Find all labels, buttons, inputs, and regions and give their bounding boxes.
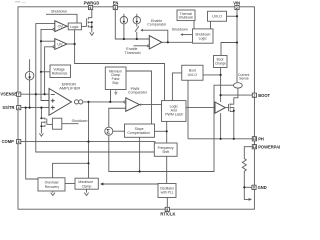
slope compensation box [125,124,155,137]
svg-text:PH: PH [258,136,264,141]
wire overload recovery to maximum clamp [65,183,75,185]
shutdown discharge driver box [52,118,87,129]
wire PH node to PH pin [188,138,252,140]
pin PH 10 [252,136,264,141]
PWM comparator output arrow [140,104,143,106]
pin EN 3 [113,0,119,10]
node PH line dots [220,138,235,140]
boot UVLO box [182,65,203,80]
svg-text:Threshold: Threshold [125,51,141,55]
wire sigma to slope compensation [113,130,125,132]
wire POWERPAD to resistor [244,147,252,157]
gate driver triangle [215,102,225,113]
wire slope compensation to latch vertical [155,130,167,132]
node UV output dot [74,43,76,45]
svg-text:Shutdown: Shutdown [51,10,67,14]
wire boot UVLO to boot rail [203,74,221,76]
wire slope compensation bottom to loop [139,137,141,171]
wire frequency shift to oscillator [166,156,168,183]
ground overload recovery [51,191,55,196]
svg-text:Comparator: Comparator [128,91,148,95]
svg-text:8: 8 [18,140,20,144]
UVLO box [208,11,227,21]
logic box (PWRGD) [68,23,81,30]
wire overload recovery top to COMP vertical [53,163,89,178]
minimum clamp pulse skip box [105,67,126,90]
wire oscillator arrow to maximum clamp [100,183,158,186]
enable comparator [147,19,167,49]
wire VSENSE up to OV comparator input [36,24,55,95]
wire Shutdown net into PWRGD logic [46,14,77,23]
node EN line dots [123,38,138,40]
svg-text:Shift: Shift [162,150,169,154]
svg-text:2: 2 [236,6,238,10]
svg-text:6: 6 [90,6,92,10]
wire UVLO to VIN rail [227,15,238,17]
node COMP line dots [87,141,89,165]
SS discharge MOSFET [40,117,52,128]
pin COMP 8 [2,139,21,144]
wire minimum clamp right to slope compensation top [126,71,152,124]
die boundary border [18,7,254,209]
wire shutdown net label arrow [180,33,192,36]
svg-text:EN: EN [113,0,119,5]
wire VIN to boot charge [221,43,237,56]
wire voltage reference to reference vertical [41,71,50,73]
svg-text:Σ: Σ [106,129,110,135]
current source EN pullup Ip [120,17,127,24]
svg-text:7: 7 [18,93,20,97]
wire high side FET drain to current sense [230,89,238,105]
wire boot UVLO down to PH node [187,80,189,139]
node enable comparator output dot [167,41,169,43]
boot charge box [214,56,228,68]
wire latch bottom to frequency shift [166,121,168,143]
wire EN pin down and to enable comparator [115,10,149,39]
node reference vertical dots [40,40,42,73]
svg-text:Clamp: Clamp [82,184,92,188]
pin GND 9 [252,185,267,190]
svg-text:POWERPAD: POWERPAD [258,144,280,149]
comparator UV [53,39,67,50]
wire soft-start current source to SS/TR row [29,59,31,107]
minimum clamp grey arrow [114,90,118,96]
wire boot UVLO to latch top [172,73,181,101]
shutdown label top left [51,10,67,14]
svg-text:Recovery: Recovery [45,185,60,189]
node latch slope dot [166,130,168,132]
svg-text:Logic: Logic [70,25,79,29]
svg-text:Sense: Sense [239,77,249,81]
svg-text:Shutdown: Shutdown [179,16,194,20]
voltage reference box [50,65,71,78]
current sense ellipse [234,73,250,88]
svg-text:Reference: Reference [52,72,68,76]
svg-text:Shutdown: Shutdown [72,119,88,123]
svg-text:AMPLIFIER: AMPLIFIER [59,85,80,90]
wire switch control from enable comparator output [140,29,168,42]
wire VSENSE to UV comparator bubble [45,47,53,94]
node slope bottom loop dot [139,170,141,172]
pin RT/CLK 5 [160,207,175,216]
svg-text:UVLO: UVLO [188,73,198,77]
wire OV output to Logic box [67,25,68,27]
wire pullup current source 1 stems [123,14,125,39]
svg-text:PWRGD: PWRGD [84,0,100,5]
PWM comparator [124,87,148,112]
svg-text:RT/CLK: RT/CLK [160,212,175,217]
wire Logic box to PWRGD FET gate [81,25,86,27]
wire error amp output to PWM comparator [82,101,124,103]
wire GND return arrow [244,187,252,201]
wire reference vertical to OV bubble and UV input [41,29,55,100]
wire resistor bottom to GND pin [244,174,252,187]
comparator OV [53,21,67,32]
wire latch to gate driver [186,107,215,109]
svg-text:1: 1 [253,94,255,98]
wire hysteresis current source stem and switch [135,14,139,39]
svg-text:BOOT: BOOT [258,93,270,98]
shutdown net label (enable) [172,28,188,32]
PWRGD pull-down MOSFET [87,10,93,33]
shutdown logic box [193,29,214,43]
SS discharge FET drain/source vertical [40,108,42,134]
logic and PWM latch box [162,101,187,122]
svg-text:UVLO: UVLO [212,14,222,18]
pin BOOT 1 [252,93,270,98]
wire current sense feedback loop to sigma [109,85,234,171]
high side power MOSFET [225,103,235,111]
svg-text:4: 4 [18,106,20,110]
pin VSENSE 7 [0,92,20,97]
wire boot charge down to driver top [220,68,222,102]
pin SS/TR 4 [2,105,20,110]
svg-text:10: 10 [253,137,257,141]
wire VSENSE branch down to frequency shift [36,94,155,152]
wire SS/TR branch down to overload recovery [26,108,38,179]
svg-text:SS/TR: SS/TR [2,105,14,110]
svg-text:VIN: VIN [233,0,240,5]
wire SS/TR row to error amplifier input [21,107,49,109]
svg-text:OV: OV [58,25,64,29]
sigma summing junction [105,127,113,135]
svg-text:Compensation: Compensation [127,131,150,135]
ground maximum clamp [84,189,88,195]
wire enable threshold stub [134,45,148,47]
wire thermal shutdown to shutdown logic [193,21,195,29]
wire oscillator to RT/CLK pin [166,198,168,208]
wire minimum clamp down to COMP node [110,90,112,102]
svg-text:with PLL: with PLL [161,190,174,194]
wire VIN rail [236,10,238,83]
thermal shutdown box [177,10,195,21]
maximum clamp box [75,178,98,189]
pin POWERPAD 11 [252,144,282,149]
svg-text:UV: UV [57,43,63,47]
resistor to GND [242,157,246,174]
oscillator with PLL box [158,184,176,198]
pin PWRGD 6 [84,0,100,10]
node VIN rail dots [236,15,238,43]
wire shutdown discharge box to label [62,123,79,125]
node SS/TR row dots [25,107,43,109]
svg-text:PWM Latch: PWM Latch [165,112,183,116]
svg-text:Charge: Charge [215,62,226,66]
pin VIN 2 [233,0,240,10]
wire VSENSE row to error amplifier inverting input [21,93,49,95]
wire sigma to PWM comparator input [109,108,126,127]
svg-text:VSENSE: VSENSE [0,92,17,97]
wire high side FET source to PH node [230,111,234,138]
frequency shift box [154,143,177,156]
svg-text:9: 9 [253,186,255,190]
ground SS discharge [39,133,43,136]
error amplifier U1 [49,81,80,115]
svg-text:11: 11 [253,145,257,149]
wire PWM comparator output to latch [140,104,162,106]
svg-text:COMP: COMP [2,139,15,144]
node GND dot [243,186,245,188]
svg-text:Comparator: Comparator [147,23,167,27]
wire boot rail to BOOT pin [221,94,253,96]
node error amp output dots [87,101,111,103]
svg-text:Shutdown: Shutdown [172,28,188,32]
wire COMP pin to error amp output node [21,102,155,178]
wire UV output to Logic and PWM latch [67,30,165,101]
wire enable comparator output to shutdown logic [162,41,193,43]
error amp output buffer circles [74,100,82,104]
enable threshold label [125,47,141,55]
faint cropped text remnant top-left [15,1,26,3]
svg-text:GND: GND [258,185,267,190]
wire driver bottom to PH node [220,113,222,139]
svg-text:Skip: Skip [112,81,118,85]
ground PWRGD FET [90,32,94,35]
wire UVLO to shutdown logic [210,21,212,29]
svg-text:3: 3 [114,6,116,10]
node boot rail dots [220,74,222,96]
overload recovery box [38,178,65,191]
svg-text:Logic: Logic [199,37,207,41]
node VSENSE row dots [35,93,46,95]
current source soft start [25,71,34,80]
current source EN hysteresis Ih [133,17,140,24]
